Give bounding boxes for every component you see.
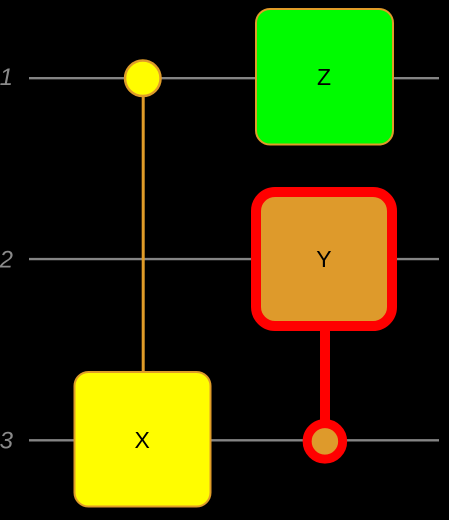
svg-text:Z: Z — [317, 64, 331, 90]
svg-text:3: 3 — [0, 428, 14, 455]
svg-text:Y: Y — [316, 246, 331, 272]
svg-text:1: 1 — [0, 64, 13, 91]
svg-text:2: 2 — [0, 246, 13, 273]
svg-text:X: X — [135, 427, 150, 453]
